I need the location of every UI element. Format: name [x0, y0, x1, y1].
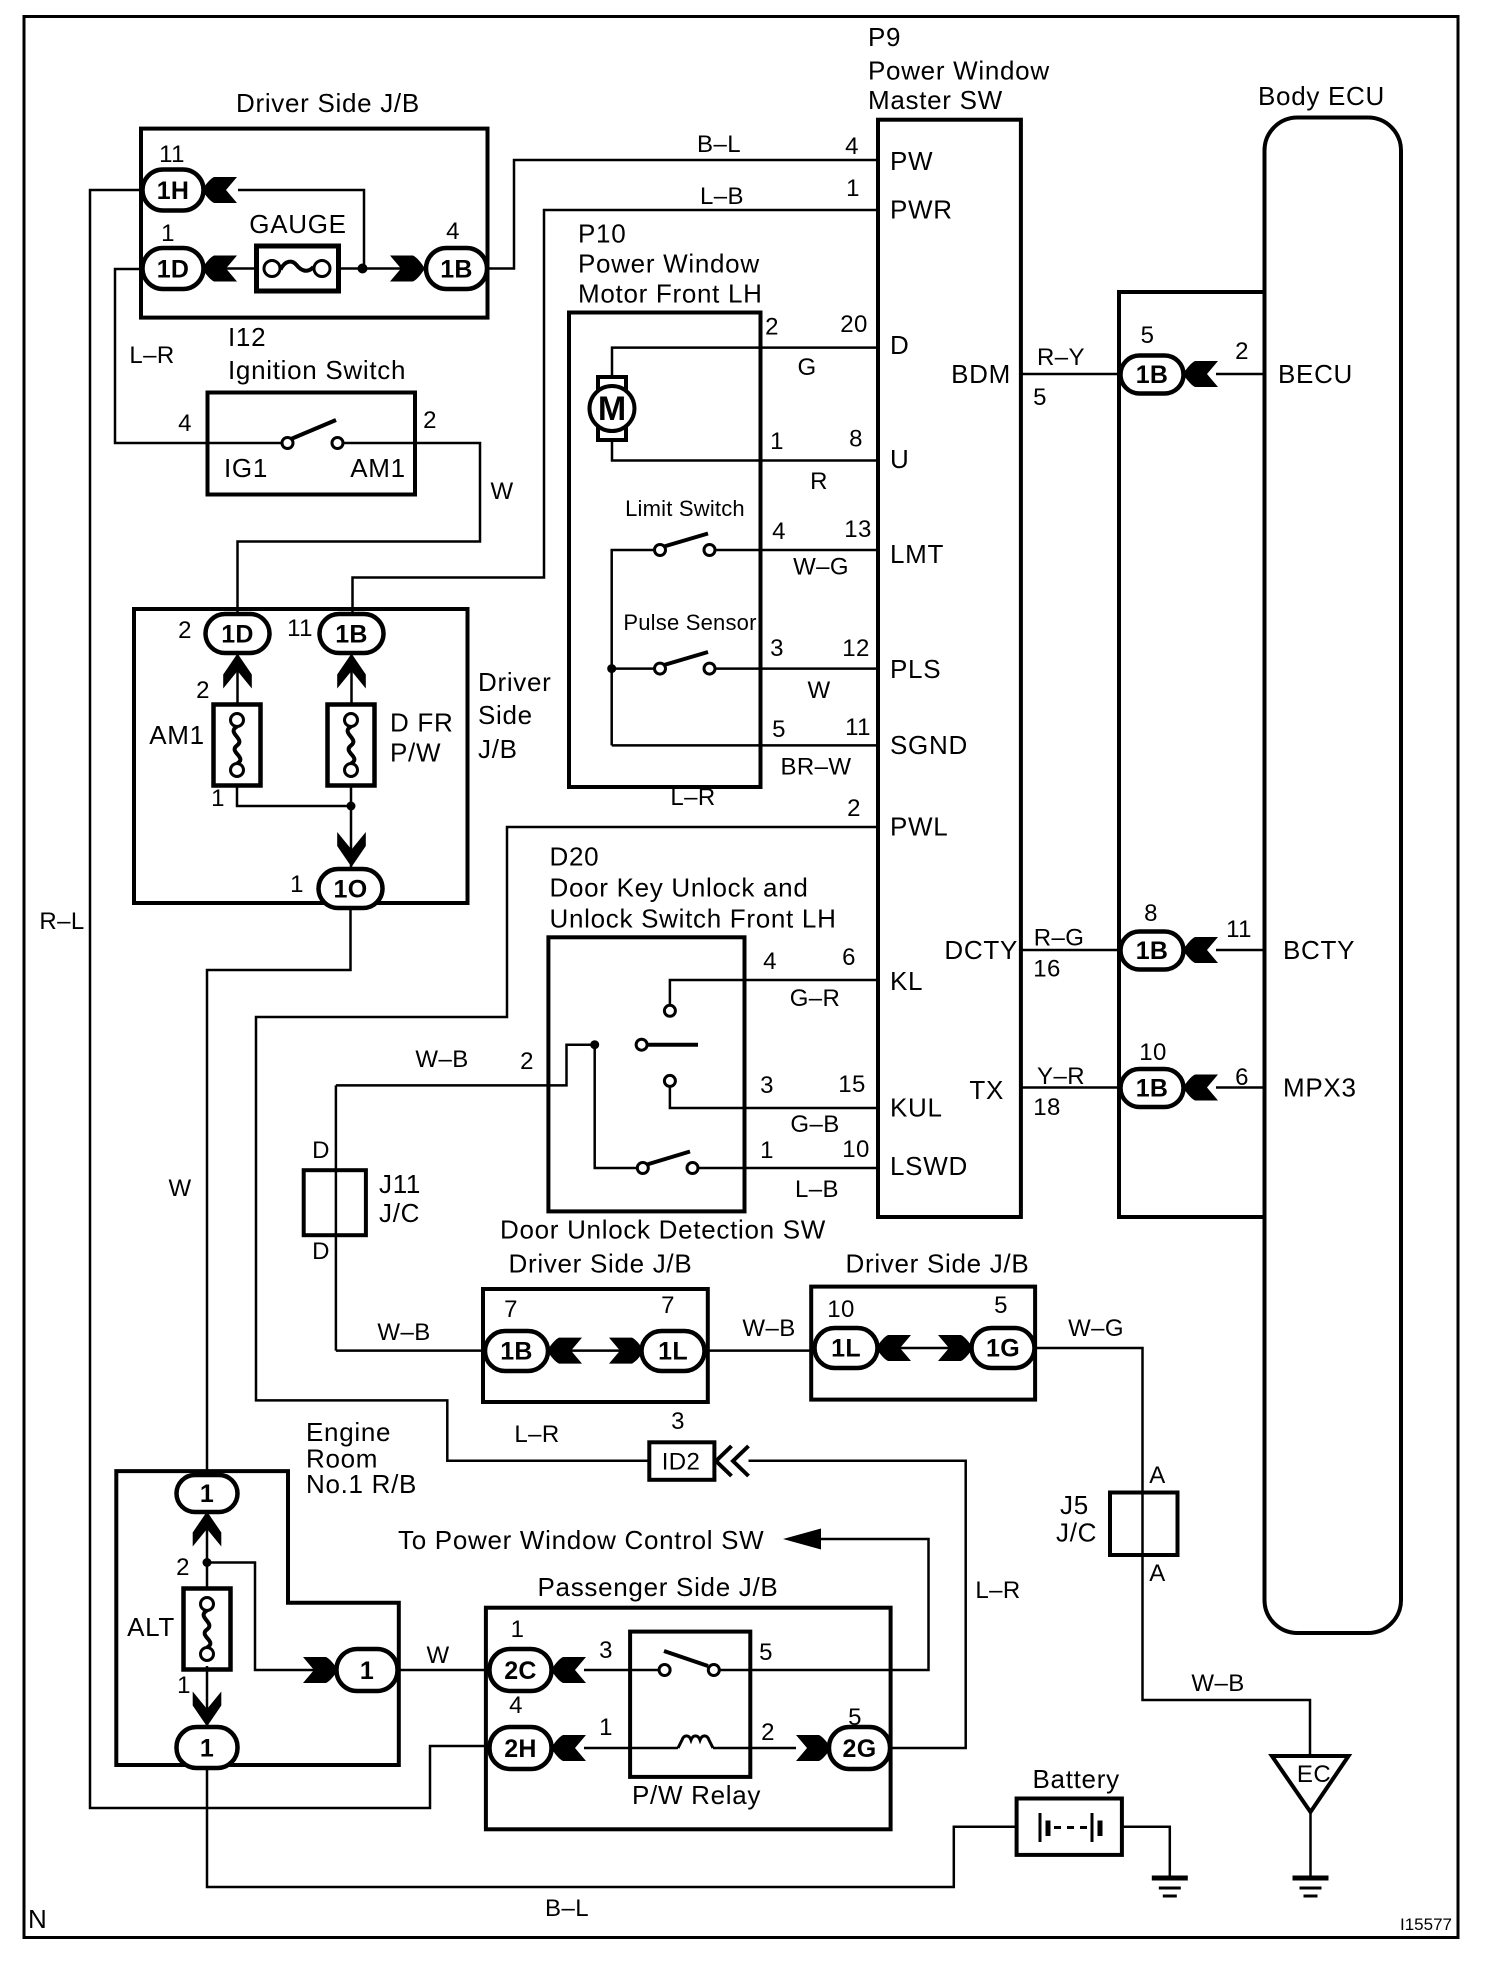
junction dot at ALT pin 2: [203, 1558, 212, 1567]
wire: KL contact to pin KL: [670, 980, 878, 1005]
svg-text:1: 1: [177, 1672, 191, 1699]
svg-text:DCTY: DCTY: [944, 935, 1018, 965]
svg-text:TX: TX: [969, 1075, 1004, 1105]
box Engine Room No.1 R/B (L-shape): [116, 1471, 399, 1765]
svg-text:W–B: W–B: [742, 1315, 795, 1342]
svg-text:G–B: G–B: [790, 1111, 839, 1138]
key switch pole contact and bar: [636, 1039, 647, 1050]
svg-text:Body ECU: Body ECU: [1258, 81, 1385, 111]
svg-text:4: 4: [763, 948, 777, 975]
wire W-B between J/B boxes: [705, 1349, 816, 1352]
svg-text:IG1: IG1: [224, 453, 268, 483]
svg-text:D: D: [312, 1137, 330, 1164]
svg-text:5: 5: [772, 716, 786, 743]
svg-text:1L: 1L: [658, 1338, 688, 1366]
svg-text:1: 1: [211, 785, 225, 812]
svg-text:1B: 1B: [335, 621, 368, 649]
svg-text:11: 11: [287, 615, 313, 642]
svg-text:16: 16: [1033, 956, 1061, 983]
svg-text:5: 5: [848, 1704, 862, 1731]
svg-text:D: D: [890, 330, 909, 360]
svg-text:Battery: Battery: [1033, 1764, 1120, 1794]
connector oval 1 (bottom, engine room): [177, 1727, 238, 1768]
svg-text:W: W: [426, 1642, 449, 1669]
arrow right into output oval 1: [303, 1657, 338, 1683]
svg-text:P9: P9: [868, 22, 901, 52]
svg-text:No.1 R/B: No.1 R/B: [306, 1469, 417, 1499]
svg-text:1: 1: [200, 1735, 214, 1763]
ignition switch lever: [291, 420, 336, 439]
svg-text:J11: J11: [379, 1169, 421, 1199]
svg-text:8: 8: [1144, 900, 1158, 927]
svg-text:Ignition Switch: Ignition Switch: [228, 355, 406, 385]
box Passenger Side J/B: [486, 1608, 891, 1830]
svg-text:1B: 1B: [1136, 361, 1169, 389]
wire B-L: engine room oval to battery: [207, 1768, 1017, 1887]
svg-text:L–R: L–R: [514, 1421, 559, 1448]
svg-text:2: 2: [520, 1048, 534, 1075]
open chevrons at ID2: [716, 1446, 749, 1476]
svg-text:5: 5: [759, 1639, 773, 1666]
svg-text:PWL: PWL: [890, 812, 948, 842]
svg-text:Driver Side J/B: Driver Side J/B: [236, 88, 420, 118]
wire R-L: junction 1H to relay pin 2H: [90, 190, 490, 1808]
motor M1: [590, 377, 635, 440]
svg-text:L–B: L–B: [795, 1176, 839, 1203]
svg-text:PLS: PLS: [890, 654, 941, 684]
box P10 power window motor: [569, 313, 761, 788]
arrow right out to 1G: [938, 1335, 973, 1361]
svg-text:2: 2: [765, 314, 779, 341]
svg-text:L–R: L–R: [670, 784, 715, 811]
contact KL: [664, 1005, 675, 1016]
arrow chevron up into 1B: [337, 654, 366, 689]
svg-text:1: 1: [360, 1657, 374, 1685]
svg-text:1B: 1B: [1136, 1075, 1169, 1103]
svg-text:J/B: J/B: [478, 734, 518, 764]
svg-text:13: 13: [844, 516, 872, 543]
svg-text:2C: 2C: [504, 1657, 537, 1685]
contact KUL: [664, 1075, 675, 1086]
wire: EC to ground: [1309, 1812, 1312, 1878]
svg-text:1D: 1D: [221, 621, 254, 649]
svg-text:Driver Side J/B: Driver Side J/B: [509, 1249, 693, 1279]
svg-text:BDM: BDM: [951, 359, 1011, 389]
svg-text:AM1: AM1: [350, 453, 406, 483]
svg-text:Door Key Unlock and: Door Key Unlock and: [550, 873, 809, 903]
junction connector J11 J/C: [304, 1170, 366, 1235]
svg-text:1B: 1B: [500, 1338, 533, 1366]
svg-text:LSWD: LSWD: [890, 1151, 968, 1181]
ground symbol EC: [1293, 1878, 1329, 1896]
arrow left into 1B: [547, 1338, 582, 1364]
wire L-B: master switch pin PWR to 1B of driver side J/B: [353, 210, 879, 616]
svg-text:1B: 1B: [1136, 937, 1169, 965]
wire W-B: J5 to EC ground: [1143, 1493, 1311, 1757]
svg-text:6: 6: [842, 944, 856, 971]
junction dot on sensor rail: [607, 664, 616, 673]
svg-text:Door Unlock Detection SW: Door Unlock Detection SW: [500, 1215, 826, 1245]
svg-text:B–L: B–L: [697, 131, 741, 158]
svg-text:R–G: R–G: [1034, 925, 1085, 952]
svg-text:1: 1: [511, 1616, 525, 1643]
svg-text:10: 10: [842, 1136, 870, 1163]
arrow out to 1B: [390, 256, 425, 282]
connector oval 1L (pin 10): [815, 1328, 878, 1368]
wire branch: ALT pin2 to output oval 1: [207, 1563, 338, 1671]
connector oval 1B (pin 7): [485, 1331, 548, 1371]
wire: 1D through GAUGE fuse row left segment: [203, 267, 258, 270]
svg-text:Pulse Sensor: Pulse Sensor: [623, 610, 756, 635]
svg-text:KUL: KUL: [890, 1093, 943, 1123]
svg-text:3: 3: [760, 1072, 774, 1099]
svg-text:Unlock Switch Front LH: Unlock Switch Front LH: [550, 904, 837, 934]
wire: sensor ground rail to pin SGND: [612, 744, 878, 747]
wire: ALT to bottom oval 1: [206, 1666, 209, 1729]
svg-text:10: 10: [1139, 1039, 1167, 1066]
svg-text:2: 2: [176, 1554, 190, 1581]
svg-text:2: 2: [423, 407, 437, 434]
connector oval 1L (pin 7): [642, 1331, 705, 1371]
svg-text:BR–W: BR–W: [781, 754, 852, 781]
svg-text:1O: 1O: [334, 876, 368, 904]
wire: GAUGE fuse to 1B with junction: [337, 267, 427, 270]
ground symbol battery: [1152, 1878, 1188, 1896]
svg-text:20: 20: [840, 311, 868, 338]
wire TX row right: [1216, 1086, 1265, 1089]
svg-text:I15577: I15577: [1400, 1915, 1452, 1934]
ignition switch contact AM1: [332, 438, 343, 449]
svg-text:BECU: BECU: [1278, 359, 1353, 389]
svg-text:1: 1: [846, 175, 860, 202]
arrow chevron up into oval 1: [193, 1512, 222, 1547]
wire inside J/B: [877, 1347, 972, 1350]
arrow chevron down to oval 1: [193, 1692, 222, 1727]
svg-text:PWR: PWR: [890, 195, 953, 225]
svg-text:D FR: D FR: [390, 708, 453, 738]
arrow into 1B TX: [1183, 1075, 1218, 1101]
pulse sensor contacts and lever: [655, 663, 666, 674]
svg-text:Driver: Driver: [478, 667, 552, 697]
svg-text:4: 4: [446, 218, 460, 245]
svg-text:W–B: W–B: [377, 1319, 430, 1346]
fuse GAUGE: [257, 246, 339, 291]
svg-text:D20: D20: [550, 842, 600, 872]
wire TX row left: [1021, 1086, 1120, 1089]
wire: coil to 2G: [713, 1747, 796, 1750]
svg-text:7: 7: [661, 1292, 675, 1319]
connector oval 1G (pin 5): [972, 1328, 1035, 1368]
wire B-L: 1B to master switch pin PW: [487, 160, 878, 269]
svg-text:P/W: P/W: [390, 738, 441, 768]
wire: relay switch out to control SW arrow: [750, 1539, 928, 1670]
svg-text:Master SW: Master SW: [868, 85, 1003, 115]
connector oval 1B (pin 11): [320, 614, 384, 653]
svg-text:2: 2: [761, 1719, 775, 1746]
svg-text:P10: P10: [578, 219, 626, 249]
svg-text:I12: I12: [228, 322, 266, 352]
svg-text:4: 4: [178, 410, 192, 437]
svg-text:GAUGE: GAUGE: [249, 209, 346, 239]
connector oval 1 (top, engine room): [177, 1475, 238, 1512]
svg-text:Passenger Side J/B: Passenger Side J/B: [538, 1572, 779, 1602]
arrow chevron up into 1D: [223, 654, 252, 689]
wire W-B: into D20 common pole: [336, 1045, 595, 1086]
wire: KUL contact to pin KUL: [670, 1086, 878, 1108]
svg-text:A: A: [1149, 1462, 1165, 1489]
limit switch contacts and lever: [655, 545, 666, 556]
arrow into 2G: [796, 1735, 831, 1761]
wire L-R: ID2 to 2G of passenger side J/B: [749, 1461, 966, 1748]
svg-text:1: 1: [599, 1714, 613, 1741]
svg-text:1B: 1B: [440, 256, 473, 284]
junction dot at GAUGE output: [358, 264, 368, 274]
svg-text:J5: J5: [1060, 1490, 1089, 1520]
svg-text:P/W Relay: P/W Relay: [632, 1780, 761, 1810]
fuse D FR P/W: [328, 705, 375, 786]
svg-text:1L: 1L: [831, 1335, 861, 1363]
svg-text:L–R: L–R: [129, 342, 174, 369]
wire BCTY row right: [1216, 949, 1265, 952]
svg-text:J/C: J/C: [379, 1198, 420, 1228]
wire: fuse D FR pin1 to junction then 1O: [350, 784, 353, 871]
junction connector J5 J/C: [1110, 1493, 1178, 1556]
arrow into 2C: [551, 1657, 586, 1683]
wire W: 1O down to engine room R/B: [207, 908, 351, 1476]
connector oval 1H: [143, 170, 204, 211]
svg-text:W: W: [807, 677, 830, 704]
wire: LSWD switch to pin LSWD: [698, 1167, 878, 1170]
wire BDM row right: [1216, 373, 1265, 376]
connector ID2: [649, 1442, 714, 1480]
connector oval 1O (pin 1): [319, 869, 383, 908]
svg-text:W: W: [490, 478, 513, 505]
svg-text:A: A: [1149, 1560, 1165, 1587]
wire: battery to ground: [1122, 1827, 1170, 1878]
svg-text:2: 2: [1235, 338, 1249, 365]
wire: pole to LSWD switch: [595, 1045, 638, 1168]
svg-text:U: U: [890, 444, 909, 474]
wire: 2C arrow to relay switch: [584, 1669, 660, 1672]
connector oval 1D: [143, 248, 204, 289]
svg-text:1H: 1H: [157, 177, 190, 205]
svg-text:LMT: LMT: [890, 539, 944, 569]
svg-text:2H: 2H: [504, 1735, 537, 1763]
svg-text:R: R: [810, 468, 828, 495]
wire: motor to pin D: [612, 348, 878, 378]
connector oval 1B (TX row): [1121, 1069, 1184, 1107]
svg-text:ALT: ALT: [127, 1612, 175, 1642]
svg-text:11: 11: [159, 141, 185, 168]
wire PWL: master switch PWL to ID2: [256, 827, 878, 1461]
svg-text:EC: EC: [1297, 1761, 1331, 1788]
svg-text:2: 2: [196, 677, 210, 704]
svg-text:Side: Side: [478, 700, 533, 730]
box ignition switch I12: [208, 393, 416, 495]
junction dot D20 pole: [590, 1040, 599, 1049]
arrow into 1B BCTY: [1183, 937, 1218, 963]
svg-text:1G: 1G: [986, 1335, 1020, 1363]
svg-text:B–L: B–L: [545, 1895, 589, 1922]
svg-text:8: 8: [849, 426, 863, 453]
svg-text:1: 1: [760, 1137, 774, 1164]
svg-text:Y–R: Y–R: [1037, 1063, 1085, 1090]
svg-text:Engine: Engine: [306, 1417, 391, 1447]
component battery: [1017, 1799, 1122, 1855]
svg-text:L–R: L–R: [975, 1577, 1020, 1604]
connector oval 1B (BCTY row): [1121, 932, 1184, 970]
svg-text:1: 1: [770, 428, 784, 455]
svg-text:SGND: SGND: [890, 730, 968, 760]
connector oval 1B (BDM row): [1121, 356, 1184, 394]
svg-text:R–Y: R–Y: [1037, 344, 1085, 371]
relay switch contacts and lever: [659, 1665, 670, 1676]
svg-text:Power Window: Power Window: [868, 56, 1050, 86]
wire: 1H arrow to GAUGE fuse output junction: [238, 190, 364, 269]
svg-text:D: D: [312, 1238, 330, 1265]
svg-text:KL: KL: [890, 966, 923, 996]
svg-text:11: 11: [845, 714, 871, 741]
svg-text:1D: 1D: [157, 256, 190, 284]
wire: top oval 1 to ALT fuse: [206, 1509, 209, 1592]
svg-text:W–B: W–B: [1191, 1670, 1244, 1697]
svg-text:2: 2: [847, 795, 861, 822]
connector oval 2G (pin 5): [829, 1727, 890, 1769]
wire BCTY row left: [1021, 949, 1120, 952]
svg-text:MPX3: MPX3: [1283, 1073, 1357, 1103]
svg-text:R–L: R–L: [39, 908, 84, 935]
wire W-B: D20 to J11 junction connector: [335, 1085, 338, 1350]
svg-text:L–B: L–B: [700, 183, 744, 210]
svg-text:To Power Window Control SW: To Power Window Control SW: [398, 1525, 764, 1555]
arrow right out to 1L: [609, 1338, 644, 1364]
svg-text:4: 4: [509, 1692, 523, 1719]
svg-text:5: 5: [994, 1292, 1008, 1319]
connector oval 1B (pin 4): [426, 248, 487, 289]
svg-text:BCTY: BCTY: [1283, 935, 1355, 965]
arrow into 1D: [202, 256, 237, 282]
wire: pulse sensor to pin PLS: [715, 667, 878, 670]
svg-text:18: 18: [1033, 1094, 1061, 1121]
svg-text:G: G: [797, 354, 816, 381]
svg-text:Motor Front LH: Motor Front LH: [578, 279, 763, 309]
svg-text:3: 3: [671, 1408, 685, 1435]
wire W-G: 1G to junction connector J5: [1035, 1348, 1143, 1493]
wire: motor to pin U: [612, 440, 878, 461]
box P9 power window master switch: [878, 120, 1021, 1217]
wire: limit switch to sensor ground rail: [612, 550, 654, 745]
svg-text:4: 4: [845, 133, 859, 160]
svg-text:W–B: W–B: [415, 1046, 468, 1073]
wire: 2H to relay coil: [584, 1747, 678, 1750]
arrow left into 1L: [876, 1335, 911, 1361]
ignition switch contact IG1: [282, 438, 293, 449]
svg-text:4: 4: [772, 518, 786, 545]
ground EC triangle: [1272, 1756, 1349, 1812]
wire: 1B to fuse D FR P/W: [350, 652, 353, 706]
svg-text:11: 11: [1226, 916, 1252, 943]
svg-text:Power Window: Power Window: [578, 249, 760, 279]
connector oval 1D (pin 2): [206, 614, 270, 653]
svg-text:6: 6: [1235, 1064, 1249, 1091]
svg-text:5: 5: [1033, 384, 1047, 411]
wire W-B: J11 to 1B of driver side J/B: [336, 1349, 485, 1352]
wire: relay switch right contact: [720, 1669, 751, 1672]
svg-text:N: N: [28, 1904, 47, 1934]
svg-text:2G: 2G: [843, 1735, 877, 1763]
box Driver Side J/B (lower left): [483, 1289, 708, 1402]
connector oval 2H (pin 4): [490, 1727, 552, 1769]
arrow to power window control SW: [783, 1529, 821, 1550]
svg-text:12: 12: [842, 635, 870, 662]
wire inside J/B: [548, 1349, 642, 1352]
arrow into 1H: [202, 177, 237, 203]
svg-text:1: 1: [200, 1480, 214, 1508]
svg-text:AM1: AM1: [149, 720, 205, 750]
svg-text:ID2: ID2: [662, 1449, 701, 1476]
svg-text:Driver Side J/B: Driver Side J/B: [846, 1249, 1030, 1279]
wire W: ignition AM1 to connector 1D of driver side J/B: [238, 443, 481, 616]
junction dot mid J/B: [347, 802, 356, 811]
relay coil: [678, 1736, 713, 1748]
svg-text:2: 2: [178, 617, 192, 644]
svg-text:1: 1: [290, 871, 304, 898]
box Driver Side J/B (lower right): [811, 1287, 1035, 1400]
wire L-R: connector 1D to ignition switch pin 4: [115, 269, 208, 443]
svg-text:PW: PW: [890, 146, 933, 176]
svg-text:7: 7: [504, 1296, 518, 1323]
wire BDM row left: [1021, 373, 1120, 376]
svg-text:10: 10: [827, 1296, 855, 1323]
svg-text:W–G: W–G: [1068, 1315, 1124, 1342]
svg-text:3: 3: [599, 1637, 613, 1664]
ECU Body ECU box: [1265, 118, 1402, 1634]
svg-text:G–R: G–R: [790, 985, 841, 1012]
connector oval 1 (engine room output): [337, 1649, 398, 1691]
svg-text:W–G: W–G: [793, 554, 849, 581]
box body junction connector 1B: [1119, 292, 1265, 1217]
arrow chevron down to 1O: [337, 832, 366, 867]
svg-text:15: 15: [838, 1071, 866, 1098]
box Driver Side J/B (top): [141, 129, 488, 318]
svg-text:W: W: [168, 1175, 191, 1202]
svg-text:1: 1: [161, 220, 175, 247]
svg-text:Limit Switch: Limit Switch: [625, 496, 745, 521]
box Driver Side J/B (middle): [134, 609, 468, 903]
wire: fuse AM1 pin1 to junction: [237, 784, 351, 806]
box D20 door key unlock switch: [548, 937, 744, 1211]
fuse AM1: [214, 705, 261, 786]
wire: limit switch to pin LMT: [715, 549, 878, 552]
fuse ALT: [184, 1589, 231, 1670]
svg-text:5: 5: [1141, 322, 1155, 349]
svg-text:3: 3: [770, 635, 784, 662]
wire W: engine room to 2C: [398, 1669, 491, 1672]
wire: pulse sensor to rail with junction: [612, 667, 654, 670]
arrow into 2H: [551, 1735, 586, 1761]
wire: 1D to fuse AM1: [236, 652, 239, 706]
svg-text:M: M: [598, 390, 626, 428]
LSWD switch contacts and lever: [637, 1163, 648, 1174]
box P/W relay: [630, 1632, 750, 1777]
ignition switch internal wires: [208, 442, 283, 445]
arrow into 1B BDM: [1183, 361, 1218, 387]
svg-text:J/C: J/C: [1056, 1518, 1097, 1548]
connector oval 2C (pin 1): [490, 1649, 552, 1691]
